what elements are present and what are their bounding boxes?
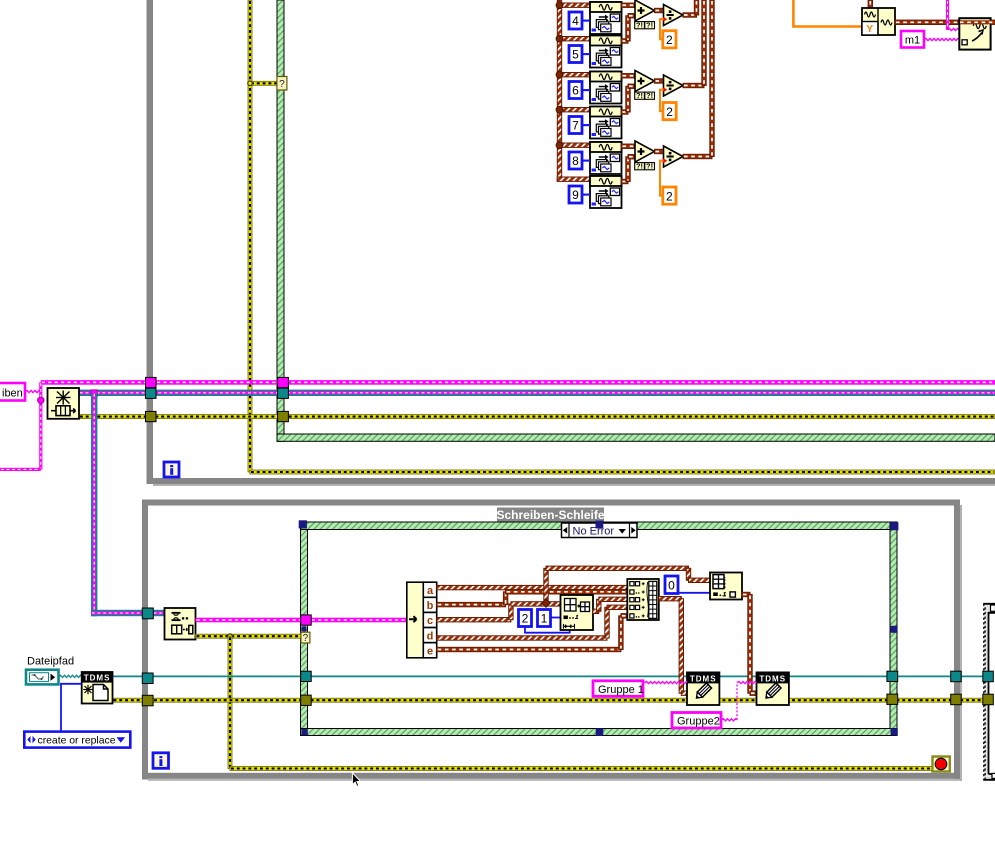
svg-text:a: a (427, 585, 434, 597)
numeric constant 5 (569, 46, 582, 63)
while loop W2 bottom border (142, 773, 960, 779)
zigzag wire Gruppe2 (722, 719, 738, 721)
magenta wire from top (946, 0, 949, 30)
zigzag wire m1 to graph (924, 38, 959, 40)
array branch wire to index icon 4 (558, 3, 590, 7)
wire divide2 output (683, 83, 704, 87)
index waveform icon U8 (590, 142, 622, 174)
svg-text:TDMS: TDMS (84, 674, 111, 683)
error wire branch to tunnel (250, 81, 278, 85)
tdms reference wire (113, 675, 990, 677)
tunnel tdms on CS left (301, 671, 312, 681)
wire junction knot 7 (556, 106, 563, 113)
svg-text:0: 0 (668, 579, 675, 593)
tunnel string on W1 (146, 377, 157, 387)
wire divide3 up (710, 0, 714, 157)
svg-text:d: d (427, 630, 434, 642)
waveform wire from U5 to add (622, 39, 629, 43)
wire c branch up to matrix (544, 568, 548, 604)
wire b to interleave (437, 602, 506, 606)
path wire zigzag (59, 675, 82, 677)
error wire along W1 bottom (250, 470, 995, 474)
svg-text:b: b (427, 600, 434, 612)
numeric constant 2 (DBL) #2 (663, 103, 676, 120)
waveform wire build to graph (895, 20, 995, 24)
case structure CS top border (301, 522, 898, 530)
tunnel tdms on W2 right (951, 671, 962, 682)
svg-text:2: 2 (666, 105, 673, 119)
error wire from dequeue (196, 634, 302, 638)
orange wire 2 to divide 1 (660, 19, 664, 39)
waveform wire over graph (960, 20, 995, 24)
wire divide1 output (683, 13, 697, 17)
numeric constant 9 (569, 186, 582, 203)
wire add to divide 3 (655, 149, 665, 153)
string wire junction dot (38, 397, 44, 403)
tunnel error on W1 (146, 411, 157, 421)
tunnel error on W2 left (142, 695, 153, 706)
svg-text:8: 8 (572, 154, 579, 168)
index waveform icon U6 (590, 72, 622, 104)
unwired tunnel ? on CS (301, 632, 310, 643)
tdms write node 1 (687, 672, 719, 705)
label Gruppe2 (672, 713, 721, 729)
svg-text:m1: m1 (905, 34, 920, 46)
error wire junction (248, 81, 253, 86)
tdms open node (82, 672, 113, 704)
svg-text:2: 2 (666, 189, 673, 203)
index wire 4 (582, 20, 590, 22)
wire divide2 up (702, 0, 706, 86)
waveform array trunk wire (557, 0, 561, 179)
waveform wire from U8 to add (622, 144, 637, 148)
build matrix node (710, 573, 742, 600)
svg-text:9: 9 (572, 188, 579, 202)
index waveform icon U9 (590, 176, 622, 208)
coercion dot V3 (663, 158, 667, 163)
error wire vertical in W1 (248, 0, 252, 472)
tunnel on flat sequence bottom (992, 773, 995, 778)
tunnel cluster on CS (301, 615, 312, 625)
index wire 6 (582, 89, 590, 91)
cluster wire dequeue to unbundle (196, 618, 407, 623)
while loop W2 top border (142, 500, 960, 506)
numeric constant 1 (index) (538, 610, 551, 627)
wire junction knot 6 (556, 71, 563, 78)
svg-text:6: 6 (572, 84, 579, 98)
string wire vertical (39, 382, 42, 469)
svg-text:4: 4 (572, 14, 579, 28)
svg-text:?!: ?! (646, 161, 653, 170)
junction on wire c (542, 599, 550, 607)
while loop W2 left border (142, 500, 148, 780)
iteration terminal i W2 (153, 753, 169, 769)
svg-text:TDMS: TDMS (759, 674, 786, 683)
dequeue element node (165, 608, 196, 640)
enum constant create or replace (24, 732, 130, 748)
wire e to interleave (437, 647, 621, 651)
svg-text:?: ? (279, 79, 285, 90)
blue wire 1 to align (551, 617, 561, 619)
wire divide1 up (694, 0, 698, 15)
svg-text:Gruppe2: Gruppe2 (677, 716, 720, 728)
numeric constant 4 (569, 12, 582, 29)
tunnel tdms on W2 left (142, 673, 153, 684)
svg-text:e: e (427, 645, 433, 657)
array branch wire to index icon 8 (558, 143, 590, 147)
svg-text:create or replace: create or replace (38, 735, 116, 746)
add function A1 (635, 0, 655, 21)
svg-text:2: 2 (522, 612, 529, 626)
zigzag wire into graph (948, 28, 960, 30)
flat sequence frame (983, 604, 995, 780)
queue wire down (91, 393, 97, 616)
queue wire main (79, 390, 995, 396)
svg-text:?!: ?! (646, 20, 653, 29)
case structure CS bottom border (301, 729, 898, 736)
orange wire 2 to divide 3 (660, 161, 664, 196)
numeric constant 2 (DBL) #1 (663, 31, 676, 48)
add function A2 (635, 71, 655, 92)
waveform wire from U4 to add (622, 3, 637, 7)
iteration terminal i W1 (164, 462, 179, 477)
tunnel on flat sequence top (991, 605, 995, 611)
index wire 8 (582, 160, 590, 162)
wire d to interleave (437, 636, 607, 640)
file path control (26, 670, 59, 685)
wire divide3 output (683, 154, 712, 158)
handle CS left-mid (301, 626, 306, 631)
string wire main (41, 380, 995, 385)
numeric constant 6 (569, 82, 582, 99)
disable structure D1 left border (277, 0, 284, 441)
label Schreiben (cut) (0, 383, 25, 401)
numeric constant 7 (569, 117, 582, 134)
wire junction knot 8 (556, 142, 563, 149)
numeric constant 2 (DBL) #3 (663, 187, 676, 204)
waveform graph terminal (959, 18, 990, 49)
while loop W2 right border (954, 500, 960, 780)
build waveform node (862, 8, 895, 35)
array branch wire to index icon 9 (557, 177, 590, 181)
case selector No Error (562, 523, 638, 538)
wire junction knot 5 (556, 35, 563, 42)
conversion boxes ?! A1 (635, 22, 645, 29)
wire interleave out to TDMS1 (659, 597, 682, 601)
divide function V3 (664, 146, 684, 167)
case structure CS left border (301, 522, 308, 736)
error wire down to stop (228, 636, 232, 768)
svg-text:1: 1 (541, 612, 548, 626)
tdms error wire (113, 698, 990, 702)
error junction dot (228, 634, 233, 639)
coercion dot V2 (663, 87, 667, 92)
waveform wire into build waveform top (868, 0, 872, 8)
svg-text:2: 2 (666, 33, 673, 47)
array branch wire to index icon 5 (558, 37, 590, 41)
coercion dot V1 (663, 17, 667, 22)
unbundle by name node (407, 582, 437, 658)
svg-text:?: ? (303, 633, 309, 644)
waveform wire from U7 to add (622, 110, 629, 114)
tunnel error on flat sequence (983, 694, 994, 705)
svg-text:?!: ?! (636, 20, 643, 29)
index waveform icon U5 (590, 36, 622, 68)
handle CS bottom-center (596, 728, 604, 736)
loop label Schreiben-Schleife (497, 508, 604, 523)
svg-text:TDMS: TDMS (690, 674, 717, 683)
numeric constant 8 (569, 152, 582, 169)
wire align out to interleave (593, 609, 599, 613)
orange wire 2 to divide 2 (660, 90, 664, 112)
case structure CS right border (890, 522, 897, 736)
svg-text:7: 7 (572, 119, 579, 133)
string wire to left edge (0, 468, 41, 471)
blue wire 2 to align (525, 627, 570, 633)
index waveform icon U7 (590, 107, 622, 139)
svg-text:5: 5 (572, 48, 579, 62)
divide function V1 (664, 5, 684, 26)
tunnel queue on D1 (278, 388, 289, 398)
stop condition terminal (933, 757, 950, 772)
handle CS top-right (890, 522, 898, 530)
array branch wire to index icon 6 (558, 73, 590, 77)
tunnel error on CS right (887, 694, 898, 704)
handle CS top-center (596, 521, 604, 529)
error wire from flush (79, 415, 995, 419)
unwired tunnel ? on D1 (277, 77, 287, 91)
svg-text:No Error: No Error (573, 525, 615, 537)
tunnel error on D1 (278, 411, 289, 421)
align waveforms node (561, 595, 594, 630)
numeric constant 2 (index) (519, 610, 532, 627)
tdms write node 2 (757, 672, 789, 705)
zigzag wire from label (25, 390, 40, 392)
svg-text:iben: iben (2, 388, 23, 400)
svg-text:Dateipfad: Dateipfad (27, 656, 74, 668)
svg-text:?!: ?! (636, 161, 643, 170)
svg-text:Y: Y (866, 23, 873, 35)
index wire 7 (582, 124, 590, 126)
handle CS right-mid (891, 626, 898, 633)
queue wire junction (91, 390, 97, 396)
svg-text:c: c (427, 615, 433, 627)
handle CS top-left (299, 520, 307, 528)
queue wire into loop W2 (91, 610, 165, 616)
conversion boxes ?! A2 (635, 92, 645, 99)
waveform wire from U6 to add (622, 74, 637, 78)
add function A3 (635, 141, 655, 162)
tunnel tdms on flat sequence (983, 671, 994, 682)
tunnel string on D1 (278, 377, 289, 387)
handle CS bottom-left (301, 729, 307, 735)
tunnel error on CS left (301, 695, 312, 705)
while loop W1 (acquisition) left border (147, 0, 154, 484)
index wire 9 (582, 194, 590, 196)
tunnel tdms on CS right (887, 671, 898, 681)
array branch wire to index icon 7 (558, 108, 590, 112)
svg-text:Gruppe 1: Gruppe 1 (598, 684, 644, 696)
zigzag wire Gruppe1 to TDMS1 (645, 682, 688, 684)
index wire 5 (582, 53, 590, 55)
enum wire to tdms open (61, 684, 82, 732)
svg-text:Schreiben-Schleife: Schreiben-Schleife (496, 508, 604, 522)
wire add to divide 1 (655, 8, 665, 12)
mouse cursor (352, 773, 360, 787)
error wire along W2 bottom (230, 767, 933, 771)
divide function V2 (664, 75, 684, 96)
tunnel queue on W1 (146, 388, 157, 398)
label Gruppe 1 (593, 681, 643, 697)
label m1 (901, 31, 924, 48)
wire junction knot 4 (556, 2, 563, 9)
tunnel error on W2 right (951, 694, 962, 705)
wire add to divide 2 (655, 79, 665, 83)
flush queue node (48, 388, 80, 419)
conversion boxes ?! A3 (635, 163, 645, 170)
interleave arrays node (627, 579, 659, 620)
svg-text:?!: ?! (636, 91, 643, 100)
disable structure D1 bottom border (277, 434, 995, 441)
wire c to align (437, 618, 511, 622)
index waveform icon U4 (590, 2, 622, 34)
orange wire to build waveform (793, 0, 862, 27)
wire a to interleave (437, 585, 628, 589)
svg-text:?!: ?! (646, 91, 653, 100)
tunnel queue on W2 (142, 608, 153, 619)
blue wire 0 to matrix (678, 592, 710, 594)
handle CS bottom-right (891, 728, 898, 735)
numeric constant 0 (665, 576, 678, 594)
while loop W1 bottom border (147, 478, 995, 484)
wire matrix out to TDMS2 (742, 592, 750, 596)
waveform wire from U9 to add (622, 179, 629, 183)
